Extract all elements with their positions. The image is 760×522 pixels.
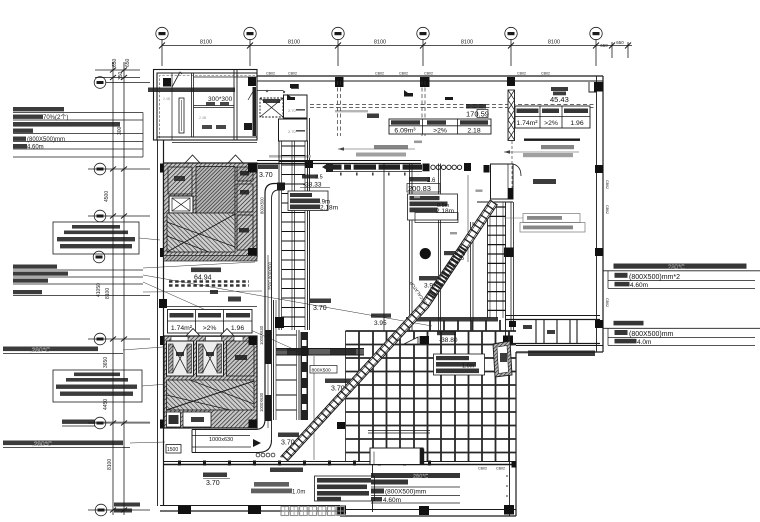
annotation block 1 text [13, 107, 120, 148]
dark rail strip [301, 332, 309, 420]
svg-text:300*300: 300*300 [208, 96, 233, 103]
svg-text:4500: 4500 [104, 191, 110, 202]
right room [227, 341, 255, 376]
damper annotation 1 [3, 347, 123, 354]
svg-text:(800X500)mm: (800X500)mm [385, 489, 426, 496]
svg-text:2.18m: 2.18m [320, 205, 338, 212]
-38.33 label [300, 175, 330, 189]
leader lines [95, 238, 432, 443]
svg-text:8100: 8100 [107, 459, 113, 470]
45.43 room label [550, 87, 569, 104]
boxed annotation 2 [53, 370, 142, 402]
curtain boxed note right [520, 214, 585, 233]
underlined annotation group mid [13, 270, 150, 296]
lift shaft B [197, 341, 224, 376]
svg-text:CB02: CB02 [605, 205, 609, 214]
svg-text:>2%: >2% [544, 120, 558, 127]
top dimension line [156, 27, 632, 66]
top-left block interior walls [157, 70, 257, 143]
interior part 2 [164, 141, 339, 440]
dark duct segments [265, 330, 272, 364]
svg-text:CB02: CB02 [399, 72, 408, 76]
smoke curtain note 2 [504, 145, 579, 157]
left annotations [3, 107, 432, 513]
dark equipment label row [148, 88, 235, 93]
svg-text:4.60m: 4.60m [27, 145, 44, 151]
svg-text:650: 650 [125, 58, 131, 67]
svg-text:CB02: CB02 [478, 467, 487, 471]
hatched block 1 (stair/lift core upper) [164, 163, 258, 257]
bottom small rooms [167, 412, 181, 427]
svg-text:1500: 1500 [167, 447, 178, 453]
door panel left strip [179, 98, 184, 133]
thick dark band right of block [253, 87, 257, 136]
escalator arrow marker [404, 337, 418, 344]
svg-text:1.0m: 1.0m [292, 490, 305, 496]
waiting room label [533, 179, 556, 184]
svg-text:>2%: >2% [433, 128, 447, 135]
800X500 box label [310, 366, 337, 374]
horizontal smoke duct band [276, 348, 364, 355]
column squares [159, 77, 603, 515]
left wall [158, 140, 164, 506]
svg-text:,280℃: ,280℃ [32, 441, 53, 448]
dashed X-box smoke room [260, 98, 283, 117]
svg-text:2.18m: 2.18m [436, 208, 454, 215]
right wall [589, 76, 603, 352]
rooms right of block [257, 91, 307, 142]
svg-text:CB02: CB02 [541, 72, 550, 76]
svg-text:8100: 8100 [548, 40, 560, 46]
svg-text:2.18: 2.18 [467, 128, 480, 135]
lines above bottom room [368, 430, 430, 432]
block R1 [603, 264, 760, 290]
bottom duct level label [203, 473, 230, 488]
second duct line [267, 255, 269, 428]
svg-text:6.09m³: 6.09m³ [394, 128, 416, 135]
svg-text:,280℃: ,280℃ [30, 347, 51, 354]
valve note block bottom-center [315, 476, 375, 501]
3.70 label right of L1 [310, 299, 331, 313]
door flags [185, 155, 243, 163]
svg-text:200.83: 200.83 [408, 184, 431, 193]
hatched strip below block1 [164, 256, 258, 262]
svg-text:CB02: CB02 [605, 298, 609, 307]
right lower wall [510, 346, 604, 517]
floor drain dot [420, 248, 431, 259]
table T3 [168, 310, 253, 334]
grid bubbles left [94, 77, 106, 89]
stair ladder right [488, 202, 514, 331]
fan connect annotation [62, 420, 95, 427]
ladder L3 lower [274, 300, 300, 420]
block R2 [603, 321, 760, 346]
svg-text:3650: 3650 [103, 357, 109, 368]
ceiling grid area [346, 320, 517, 461]
svg-text:CB02: CB02 [605, 180, 609, 189]
svg-text:CB02: CB02 [424, 72, 433, 76]
center-right value labels [437, 331, 458, 344]
bottom-right annotation block [371, 473, 460, 504]
svg-text:CB02: CB02 [496, 467, 505, 471]
stair mid rails [471, 222, 474, 331]
bottom small note [114, 503, 140, 513]
svg-text:8100: 8100 [374, 40, 386, 46]
svg-text:350: 350 [118, 71, 124, 80]
corner columns [248, 164, 257, 173]
duct level labels center [371, 251, 465, 327]
svg-text:3.70: 3.70 [259, 172, 273, 179]
svg-text:2.70: 2.70 [288, 108, 297, 113]
dark text streak above grid [406, 317, 498, 322]
door swing flags [172, 72, 182, 87]
hall divider lines [346, 164, 469, 462]
svg-text:650: 650 [600, 43, 608, 48]
svg-text:800X500: 800X500 [312, 368, 332, 374]
svg-text:280℃: 280℃ [668, 265, 685, 271]
exhaust value label near L1 top [258, 165, 278, 180]
svg-text:3.70: 3.70 [313, 305, 327, 312]
boxed annotation fan room [53, 222, 139, 254]
bottom wall [160, 506, 516, 517]
black column mid [275, 317, 284, 328]
svg-text:1000x630: 1000x630 [209, 437, 233, 443]
drawing title [281, 507, 344, 516]
svg-text:1000X630: 1000X630 [259, 392, 264, 412]
annotation block 1 rules [13, 113, 143, 158]
svg-text:CB02: CB02 [288, 72, 297, 76]
CB02 labels top [266, 72, 550, 471]
damper annotation 2 [3, 441, 130, 448]
window grid / ladder shaft top [279, 118, 310, 330]
svg-text:2.70: 2.70 [288, 129, 297, 134]
svg-text:800X500: 800X500 [260, 197, 265, 214]
svg-text:CB02: CB02 [517, 72, 526, 76]
3.70 label left of diagonal base [278, 433, 299, 447]
svg-text:1.74m²: 1.74m² [171, 325, 193, 332]
long interior wall above duct [163, 462, 516, 465]
svg-text:(800X500)mm: (800X500)mm [629, 331, 674, 338]
interior [148, 70, 596, 330]
svg-text:41050: 41050 [96, 283, 102, 297]
200.83 labels [407, 177, 440, 193]
svg-text:4.60m: 4.60m [630, 282, 648, 289]
lift with X [169, 196, 193, 213]
不吊顶 label [367, 114, 379, 119]
dark info box on L1 [288, 191, 338, 212]
svg-text:1.74m²: 1.74m² [516, 120, 538, 127]
top-right small room [477, 164, 513, 202]
dark info box center [408, 194, 459, 223]
svg-text:3.70: 3.70 [206, 480, 220, 487]
interior part 3 [166, 164, 595, 516]
right small rooms [237, 167, 253, 181]
svg-text:CB02: CB02 [266, 72, 275, 76]
ceiling dashed lines [310, 81, 596, 136]
grey text row [269, 155, 311, 158]
top-left block outer wall [154, 70, 258, 141]
svg-text:1000X630: 1000X630 [259, 325, 264, 345]
exhaust valve note right [528, 351, 595, 357]
svg-text:8100: 8100 [200, 40, 212, 46]
svg-text:2.4B: 2.4B [199, 116, 207, 120]
svg-text:-38.80: -38.80 [439, 337, 458, 344]
table T2 [515, 106, 590, 128]
right annotations [603, 264, 760, 347]
rotated dim labels [96, 58, 131, 470]
svg-text:4.0m: 4.0m [637, 339, 651, 346]
svg-text:8100: 8100 [105, 288, 111, 299]
big bottom duct 1000x630 [192, 420, 272, 453]
lift shaft A [167, 341, 194, 376]
dim labels 8100 [200, 40, 624, 49]
svg-text:2.5: 2.5 [315, 175, 323, 181]
escalator diagonal band [280, 199, 498, 461]
grid bubbles top [156, 27, 602, 39]
landing wall [257, 161, 421, 164]
lower room with big diagonals [167, 213, 235, 252]
building walls [154, 70, 610, 517]
left dimension line [88, 58, 150, 515]
dim ticks left [110, 68, 127, 513]
door flags block2 [186, 329, 234, 337]
svg-text:45.43: 45.43 [550, 95, 569, 104]
svg-text:2.4B: 2.4B [163, 97, 171, 101]
svg-text:650: 650 [112, 58, 118, 67]
svg-text:1.96: 1.96 [570, 120, 583, 127]
diffuser dashed rows [169, 282, 249, 286]
svg-text:CB02: CB02 [375, 72, 384, 76]
svg-text:650: 650 [616, 40, 624, 45]
svg-text:8100: 8100 [288, 40, 300, 46]
170.59 label [466, 104, 489, 119]
curtain note bottom [251, 482, 305, 496]
table T1 [389, 119, 491, 135]
smoke curtain note 1 [338, 141, 422, 157]
escalator top landing [322, 164, 462, 176]
X-braced shaft strip [508, 90, 515, 141]
insulation dashed line [160, 76, 256, 141]
svg-text:280℃: 280℃ [413, 474, 429, 480]
hatched fan room right [493, 341, 512, 377]
hatched block 2 (lift core lower) [164, 336, 257, 428]
small hood marks on top wall [287, 84, 453, 100]
dark note box center-bottom [434, 354, 485, 375]
ladder shaft L1 (escalator well center) [279, 141, 308, 330]
top wall east double line [257, 76, 603, 81]
svg-text:8100: 8100 [461, 40, 473, 46]
smoke duct vertical [265, 184, 284, 441]
wall ticks on long wall [178, 461, 431, 466]
middle band [167, 380, 255, 410]
right rooms top wall [505, 316, 600, 346]
svg-text:(800X500)mm*2: (800X500)mm*2 [629, 274, 680, 281]
escalator bottom circles [256, 453, 275, 457]
svg-text:70%(2个): 70%(2个) [43, 114, 68, 121]
svg-text:3.95: 3.95 [374, 320, 387, 327]
svg-text:(800X500)mm: (800X500)mm [27, 137, 65, 143]
svg-text:1.96: 1.96 [231, 325, 244, 332]
dark bar under T2 [524, 139, 580, 141]
svg-text:4450: 4450 [103, 399, 109, 410]
duct level label below [325, 379, 351, 393]
fresh air room text [191, 268, 221, 282]
small room box bottom [370, 448, 423, 465]
dim ticks [159, 43, 631, 49]
svg-text:>2%: >2% [203, 325, 217, 332]
svg-text:3.70: 3.70 [281, 440, 295, 447]
